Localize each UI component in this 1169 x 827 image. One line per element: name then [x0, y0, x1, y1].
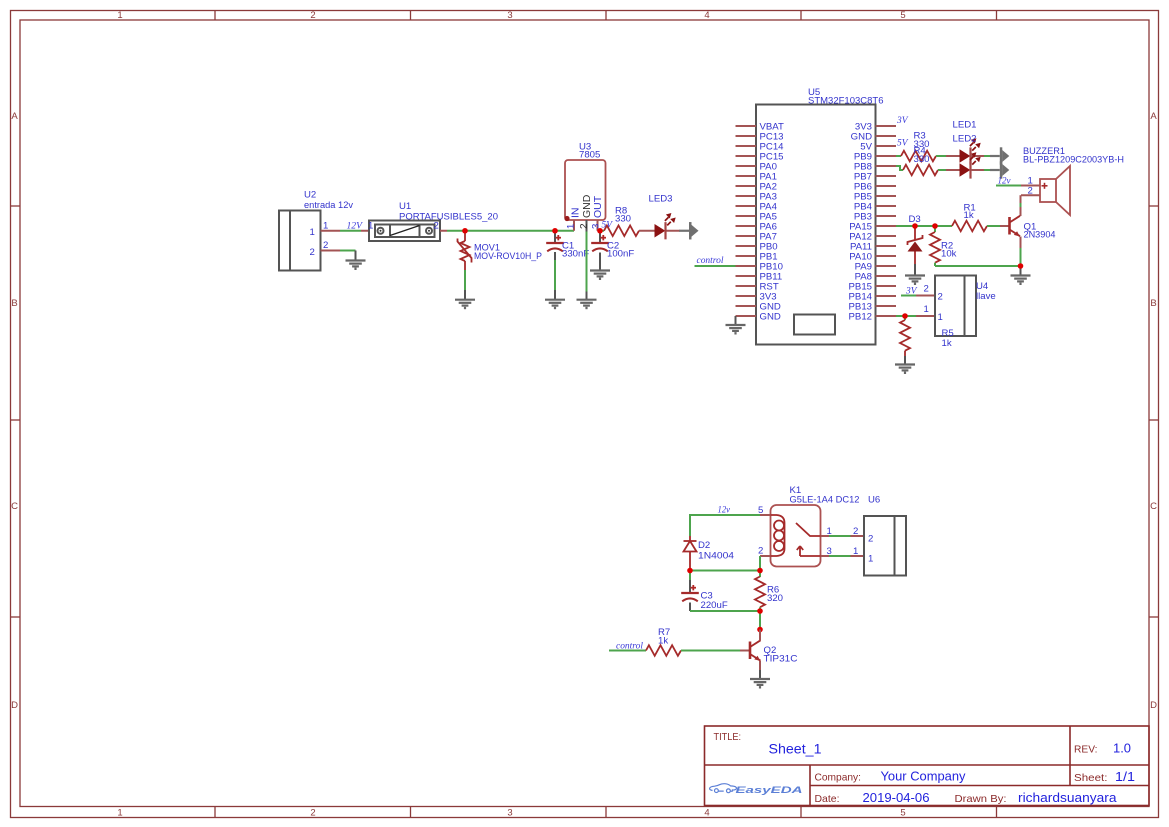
svg-text:richardsuanyara: richardsuanyara [1018, 791, 1117, 805]
transistor Q1 2N3904 [1010, 216, 1021, 237]
resistor R7 [646, 645, 681, 656]
svg-text:U2: U2 [304, 190, 316, 201]
svg-text:1/1: 1/1 [1115, 770, 1135, 784]
svg-text:Sheet:: Sheet: [1074, 772, 1108, 784]
wire R2 bottom to Q1 emitter [935, 265, 1021, 267]
svg-text:2N3904: 2N3904 [1024, 230, 1057, 241]
ground (U5 GND pin bottom-left) [735, 316, 737, 325]
EasyEDA logo [710, 784, 737, 793]
svg-text:2: 2 [310, 808, 315, 819]
svg-text:control: control [616, 641, 643, 652]
LED1 [960, 138, 981, 164]
connector U4 llave [935, 276, 976, 337]
connector U6 [864, 516, 906, 576]
svg-text:LED3: LED3 [649, 194, 673, 205]
svg-text:GND: GND [760, 312, 781, 323]
svg-text:330nF: 330nF [562, 249, 589, 260]
svg-text:PORTAFUSIBLES5_20: PORTAFUSIBLES5_20 [399, 212, 498, 223]
LED2 [960, 152, 981, 178]
svg-text:OUT: OUT [592, 195, 604, 218]
svg-text:100nF: 100nF [607, 249, 634, 260]
svg-text:1: 1 [868, 554, 873, 565]
U3 pin 1 IN [573, 220, 575, 231]
zener D3 [914, 226, 916, 240]
resistor R5 [904, 316, 906, 320]
main 12V wire to U3 [447, 230, 574, 232]
svg-text:2: 2 [310, 247, 315, 258]
svg-text:REV:: REV: [1074, 744, 1098, 756]
wire R8 to LED3 [639, 230, 655, 232]
svg-text:1: 1 [117, 808, 122, 819]
svg-text:5: 5 [758, 505, 763, 516]
junction dots relay section [687, 568, 693, 574]
svg-text:1: 1 [566, 224, 577, 229]
svg-text:5: 5 [900, 10, 905, 21]
capacitor C3 [689, 571, 691, 581]
svg-text:LED1: LED1 [953, 120, 977, 131]
svg-text:1: 1 [924, 304, 929, 315]
relay pin 2 wire down [759, 556, 761, 571]
fuse right stub [440, 230, 447, 232]
svg-text:3: 3 [507, 10, 512, 21]
svg-text:B: B [11, 298, 17, 309]
svg-text:Sheet_1: Sheet_1 [769, 742, 822, 757]
svg-text:12v: 12v [718, 505, 731, 516]
relay pin stubs [760, 514, 771, 516]
svg-text:1: 1 [117, 10, 122, 21]
svg-text:5V: 5V [897, 138, 908, 149]
resistor R4 [896, 166, 903, 170]
svg-text:2: 2 [434, 221, 439, 232]
svg-text:G5LE-1A4 DC12: G5LE-1A4 DC12 [790, 495, 860, 506]
svg-text:Your Company: Your Company [881, 770, 967, 784]
svg-text:D: D [11, 700, 18, 711]
wire PA15 net [896, 225, 952, 227]
ground (C1) [545, 300, 565, 308]
ground (U3 GND pin) [586, 292, 588, 300]
wire D2 to R6 node [690, 570, 760, 572]
svg-text:1.0: 1.0 [1113, 742, 1131, 756]
title block [705, 726, 1150, 806]
svg-text:1k: 1k [964, 210, 974, 221]
svg-text:2: 2 [1028, 186, 1033, 197]
resistor R2 [934, 226, 936, 232]
resistor R8 [604, 225, 639, 236]
U2 pin 1 stub [321, 230, 341, 232]
svg-text:2: 2 [924, 284, 929, 295]
U3 pin 3 OUT [597, 220, 599, 231]
capacitor C2 [599, 233, 601, 243]
svg-text:C: C [1150, 501, 1157, 512]
connector U2 [279, 211, 321, 271]
svg-text:3V: 3V [905, 286, 917, 297]
Q2 emitter to ground [759, 661, 761, 670]
regulator U3 7805 [565, 160, 606, 220]
buzzer pin 2 wire down to Q1 collector [1021, 194, 1040, 196]
resistor R1 [952, 221, 987, 232]
svg-text:IN: IN [570, 208, 582, 219]
svg-text:2: 2 [758, 546, 763, 557]
varistor MOV1 [464, 231, 466, 241]
svg-text:C: C [11, 501, 18, 512]
svg-text:D2: D2 [698, 540, 710, 551]
svg-text:4: 4 [704, 808, 709, 819]
svg-text:entrada 12v: entrada 12v [304, 200, 353, 211]
svg-text:4: 4 [704, 10, 709, 21]
svg-text:U1: U1 [399, 201, 411, 212]
svg-text:12V: 12V [347, 221, 363, 232]
svg-text:BL-PBZ1209C2003YB-H: BL-PBZ1209C2003YB-H [1023, 155, 1124, 166]
svg-text:3: 3 [507, 808, 512, 819]
svg-text:330: 330 [615, 214, 631, 225]
svg-text:STM32F103C8T6: STM32F103C8T6 [808, 96, 884, 107]
svg-text:2: 2 [310, 10, 315, 21]
3V net wire at U4 pin 2 [901, 295, 916, 297]
net flag (LED3) [679, 222, 698, 239]
wire U2 pin2 to ground [340, 250, 356, 252]
svg-text:1: 1 [323, 221, 328, 232]
svg-text:control: control [697, 255, 724, 266]
wire PB12 to U4 pin 1 [896, 315, 916, 317]
control net wire to R7 [609, 650, 646, 652]
svg-text:llave: llave [976, 291, 996, 302]
svg-text:D: D [1150, 700, 1157, 711]
svg-text:2019-04-06: 2019-04-06 [863, 791, 930, 805]
svg-text:Drawn By:: Drawn By: [955, 793, 1007, 805]
net flag (LED1) [990, 147, 1009, 164]
wire C3 to R6 bottom node [690, 610, 760, 612]
diode D2 1N4004 [689, 536, 691, 541]
U5 pins [736, 126, 897, 316]
svg-text:1: 1 [368, 221, 373, 232]
relay K1 [0, 0, 1, 1]
fuse holder U1 [361, 230, 370, 232]
svg-text:EasyEDA: EasyEDA [736, 785, 803, 796]
junction dots on 12V rail [462, 228, 468, 234]
buzzer BUZZER1 [1040, 166, 1070, 215]
svg-text:TIP31C: TIP31C [764, 654, 798, 665]
svg-text:220uF: 220uF [701, 600, 728, 611]
svg-text:1N4004: 1N4004 [698, 551, 735, 562]
svg-text:1: 1 [310, 227, 315, 238]
svg-text:2: 2 [868, 534, 873, 545]
svg-text:PB12: PB12 [849, 312, 872, 323]
junction dots PA15 net [912, 223, 918, 229]
wire down to Q2 collector [759, 611, 761, 630]
svg-text:1k: 1k [658, 636, 668, 647]
transistor Q2 TIP31C [750, 640, 761, 661]
svg-text:B: B [1150, 298, 1156, 309]
svg-text:U6: U6 [868, 495, 880, 506]
svg-text:10k: 10k [941, 249, 957, 260]
resistor R6 [759, 571, 761, 578]
svg-text:5: 5 [900, 808, 905, 819]
svg-text:2: 2 [323, 240, 328, 251]
svg-text:MOV-ROV10H_P: MOV-ROV10H_P [474, 251, 542, 262]
svg-text:2: 2 [938, 292, 943, 303]
Q1 emitter wire to ground [1020, 237, 1022, 249]
svg-text:1k: 1k [942, 338, 952, 349]
resistor R3 [896, 155, 901, 157]
svg-text:1: 1 [853, 546, 858, 557]
ground (C2) [590, 271, 610, 279]
ground (MOV1) [455, 300, 475, 308]
svg-text:TITLE:: TITLE: [714, 731, 742, 743]
svg-text:320: 320 [767, 593, 783, 604]
5V node wire [598, 230, 605, 232]
svg-text:A: A [1150, 111, 1157, 122]
wire 12V net [340, 230, 361, 232]
Q2 collector wire [759, 630, 761, 641]
svg-text:LED2: LED2 [953, 134, 977, 145]
svg-text:Company:: Company: [815, 772, 862, 784]
LED3 [655, 213, 676, 239]
svg-text:3V: 3V [896, 115, 908, 126]
svg-text:2: 2 [579, 223, 590, 229]
wires relay to U6 [829, 535, 851, 537]
svg-text:330: 330 [914, 154, 930, 165]
capacitor C1 [554, 233, 556, 243]
ground (U2 pin2) [346, 261, 366, 269]
U3 pin 2 GND [586, 220, 588, 232]
svg-text:A: A [11, 111, 18, 122]
svg-text:7805: 7805 [579, 150, 600, 161]
svg-text:Date:: Date: [815, 793, 840, 805]
net flag (LED2) [990, 161, 1009, 178]
svg-text:1: 1 [938, 312, 943, 323]
svg-text:2: 2 [853, 526, 858, 537]
control net wire at PB10 [695, 265, 736, 267]
U2 pin 2 stub [321, 250, 341, 252]
